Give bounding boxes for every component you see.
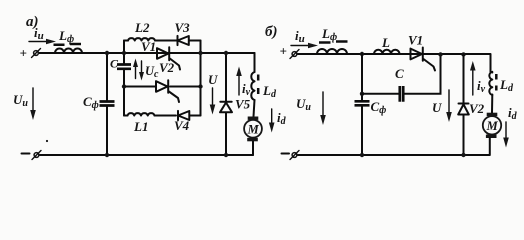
svg-text:M: M (247, 123, 260, 137)
svg-text:V1: V1 (141, 39, 156, 54)
svg-text:V2: V2 (469, 101, 485, 116)
svg-text:L: L (381, 35, 390, 50)
svg-text:V1: V1 (408, 33, 423, 48)
svg-text:L2: L2 (134, 20, 150, 35)
svg-text:U: U (432, 100, 442, 115)
svg-text:C: C (395, 66, 404, 81)
svg-text:б): б) (265, 24, 277, 40)
svg-text:M: M (486, 119, 499, 133)
svg-text:+: + (20, 45, 27, 60)
svg-text:V3: V3 (175, 20, 191, 35)
svg-text:V2: V2 (159, 60, 175, 75)
svg-text:V5: V5 (235, 97, 251, 112)
svg-text:V4: V4 (174, 118, 190, 133)
svg-text:+: + (280, 44, 287, 59)
svg-text:L1: L1 (133, 119, 148, 134)
svg-text:U: U (208, 72, 218, 87)
svg-text:C: C (110, 57, 119, 71)
